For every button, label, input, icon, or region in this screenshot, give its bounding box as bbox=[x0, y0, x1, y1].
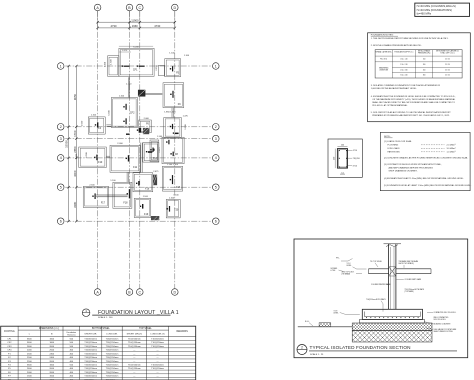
svg-text:BOTTOM STEEL: BOTTOM STEEL bbox=[92, 328, 110, 330]
grid bubble 4 at (215.8,157.9) bbox=[213, 155, 220, 162]
svg-text:200: 200 bbox=[423, 64, 426, 66]
beam-column crossing X bbox=[389, 267, 396, 277]
table column line bbox=[62, 326, 64, 380]
notes table column line bbox=[432, 50, 434, 78]
table column line bbox=[101, 326, 103, 380]
table group header line bbox=[18, 329, 169, 331]
footing CF1 main outline bbox=[119, 48, 154, 76]
svg-text:CF1: CF1 bbox=[133, 69, 138, 72]
leader dashes bbox=[421, 147, 445, 149]
grid line C (vertical) bbox=[139, 11, 141, 289]
svg-text:1.100 1.100: 1.100 1.100 bbox=[167, 164, 179, 166]
svg-text:2850: 2850 bbox=[73, 146, 77, 153]
grid line A (vertical) bbox=[97, 11, 99, 289]
column C1 (hatched block) bbox=[138, 90, 145, 96]
svg-text:F13: F13 bbox=[153, 157, 158, 160]
svg-text:2: 2 bbox=[215, 125, 217, 129]
section left dimension 500 bbox=[334, 149, 336, 169]
wall line bbox=[171, 108, 173, 118]
svg-text:5: 5 bbox=[215, 185, 217, 189]
column C1 section rectangle bbox=[337, 149, 347, 169]
svg-text:fy=460 MPa: fy=460 MPa bbox=[417, 12, 432, 16]
svg-text:F15: F15 bbox=[176, 186, 181, 189]
svg-text:250: 250 bbox=[423, 69, 426, 71]
column C-D4a (filled section) bbox=[168, 140, 169, 145]
svg-text:1.100: 1.100 bbox=[185, 124, 187, 130]
svg-text:5: 5 bbox=[60, 185, 62, 189]
foundation notes box bbox=[368, 33, 471, 122]
top overall dimension line 11900 bbox=[98, 21, 175, 23]
svg-text:F16: F16 bbox=[145, 188, 150, 191]
svg-text:T16@150mm: T16@150mm bbox=[84, 364, 97, 366]
table row line bbox=[1, 369, 196, 371]
svg-text:1.500: 1.500 bbox=[81, 120, 83, 126]
svg-text:T16@150mm: T16@150mm bbox=[106, 342, 119, 344]
svg-text:FILL SOIL: FILL SOIL bbox=[380, 59, 387, 61]
dimension tick bbox=[67, 65, 69, 67]
footing F15 outline bbox=[162, 166, 182, 191]
dimension extension line bbox=[174, 11, 176, 30]
svg-text:4730: 4730 bbox=[154, 24, 160, 28]
column C-D5 (filled section) bbox=[172, 175, 173, 184]
svg-text:T16@150mm: T16@150mm bbox=[84, 339, 97, 341]
wall line bbox=[172, 108, 174, 118]
table row line bbox=[1, 358, 196, 360]
svg-text:1. THE GEOTECHNICAL REPORT WAS: 1. THE GEOTECHNICAL REPORT WAS SECURED F… bbox=[371, 37, 449, 40]
column C-C3 (filled section) bbox=[139, 128, 141, 132]
svg-text:T16@150mm: T16@150mm bbox=[128, 364, 141, 366]
svg-text:T16@150mm: T16@150mm bbox=[151, 339, 164, 341]
svg-text:0.50 - 1.50: 0.50 - 1.50 bbox=[400, 59, 407, 61]
column top break line bbox=[384, 243, 402, 245]
column C-A2 (filled section) bbox=[97, 122, 98, 127]
footing F11 outline bbox=[110, 145, 140, 172]
svg-text:Thickness: Thickness bbox=[67, 334, 76, 336]
svg-text:500: 500 bbox=[333, 157, 335, 160]
wall line bbox=[127, 77, 129, 97]
grid bubble 4 at (60.7,157.9) bbox=[57, 155, 64, 162]
svg-text:3380: 3380 bbox=[73, 201, 77, 208]
svg-text:LONG DIR.: LONG DIR. bbox=[106, 333, 118, 335]
svg-text:AND MEP DRAWINGS BEFORE PROCEE: AND MEP DRAWINGS BEFORE PROCEEDING bbox=[389, 166, 434, 169]
svg-text:1.50 - 2.50: 1.50 - 2.50 bbox=[400, 64, 407, 66]
notes table row line bbox=[375, 61, 462, 63]
footing F5 outline bbox=[165, 59, 181, 77]
svg-text:1960: 1960 bbox=[132, 24, 138, 28]
svg-text:1: 1 bbox=[215, 64, 217, 68]
column mark at B3 bbox=[126, 134, 130, 135]
svg-text:1.100: 1.100 bbox=[184, 55, 190, 57]
column C-C4 (filled section) bbox=[148, 151, 152, 153]
svg-text:T16@150mm: T16@150mm bbox=[84, 368, 97, 370]
wall line bbox=[106, 157, 110, 159]
grid bubble C at (139.8,7.5) bbox=[137, 4, 144, 11]
table column line bbox=[40, 326, 42, 380]
grid bubble 1 at (60.7,66.0) bbox=[57, 63, 64, 70]
grid line 6 (horizontal) bbox=[65, 220, 212, 222]
svg-text:T16@150mm: T16@150mm bbox=[151, 364, 164, 366]
svg-text:1.100: 1.100 bbox=[173, 195, 179, 197]
grid bubble B at (129.5,292.0) bbox=[126, 289, 133, 296]
footing F12 pad outline bbox=[150, 140, 159, 161]
svg-text:T16@150mm: T16@150mm bbox=[128, 342, 141, 344]
svg-text:25 / 20: 25 / 20 bbox=[445, 64, 450, 66]
svg-text:1.100: 1.100 bbox=[169, 197, 175, 199]
plan title underline bbox=[92, 314, 170, 316]
dimension extension line bbox=[97, 11, 99, 30]
svg-text:SHOP DRAWINGS ON SHEET.: SHOP DRAWINGS ON SHEET. bbox=[389, 170, 418, 173]
svg-text:T16@150mm: T16@150mm bbox=[84, 376, 97, 378]
dimension extension line bbox=[139, 11, 141, 30]
svg-text:4730: 4730 bbox=[111, 24, 117, 28]
column C-D2 (filled section) bbox=[172, 91, 173, 98]
svg-text:T16@150mm: T16@150mm bbox=[84, 372, 97, 374]
svg-text:300: 300 bbox=[423, 75, 426, 77]
grid line 1 (horizontal) bbox=[65, 65, 212, 67]
table row line bbox=[1, 377, 196, 379]
note box (loads) bbox=[380, 132, 470, 190]
svg-text:CF2: CF2 bbox=[130, 111, 135, 114]
svg-text:3.50 - 4.50: 3.50 - 4.50 bbox=[400, 75, 407, 77]
table row line bbox=[1, 373, 196, 375]
top segment dimension line 4730/1960/4730 bbox=[98, 27, 175, 29]
svg-text:SOIL 95% M.D.D.: SOIL 95% M.D.D. bbox=[434, 319, 447, 321]
svg-text:1.500: 1.500 bbox=[111, 58, 113, 64]
column C-B2 (filled section) bbox=[126, 104, 127, 110]
svg-text:SCREED: SCREED bbox=[331, 268, 338, 270]
svg-text:25 / 20: 25 / 20 bbox=[445, 59, 450, 61]
svg-text:SHEET UNDER FOOTING: SHEET UNDER FOOTING bbox=[434, 331, 454, 333]
svg-text:OF THE MAXIMUM DRY DENSITY (±2: OF THE MAXIMUM DRY DENSITY (±2%). THICK … bbox=[372, 98, 456, 101]
svg-text:5.300: 5.300 bbox=[109, 110, 111, 116]
svg-text:FOUNDATION NOTES :: FOUNDATION NOTES : bbox=[371, 33, 395, 36]
column C-D3b (filled section) bbox=[175, 133, 179, 135]
dimension tick bbox=[67, 186, 69, 188]
rebar dots bbox=[339, 150, 340, 151]
svg-text:3. ISOLATED COMBINED FOUNDATIO: 3. ISOLATED COMBINED FOUNDATION TO BE PL… bbox=[371, 84, 441, 87]
grid bubble 3 at (60.7,138.6) bbox=[57, 135, 64, 142]
svg-text:95% M.D.D. AT OPTIMUM MATERIAL: 95% M.D.D. AT OPTIMUM MATERIAL. bbox=[372, 104, 408, 107]
svg-text:F10: F10 bbox=[98, 161, 103, 164]
footing F19 outline bbox=[134, 198, 151, 217]
grid bubble A at (97.6,292.0) bbox=[94, 289, 101, 296]
svg-text:T16@150mm: T16@150mm bbox=[84, 353, 97, 355]
svg-text:1,000 BELOW THE ADJACENT ASPHA: 1,000 BELOW THE ADJACENT ASPHALT LEVEL. bbox=[371, 87, 417, 90]
wall line bbox=[145, 92, 162, 94]
svg-text:LEVEL: LEVEL bbox=[334, 313, 339, 315]
hatched block SE of F19 bbox=[151, 216, 159, 220]
svg-text:2.150: 2.150 bbox=[156, 65, 158, 71]
column C-D1 (filled section) bbox=[172, 66, 173, 71]
svg-text:FOOTING: FOOTING bbox=[4, 331, 15, 333]
svg-text:N.G.L.: N.G.L. bbox=[305, 321, 310, 323]
left dimension chain (inner) bbox=[75, 66, 77, 221]
dimension tick bbox=[67, 220, 69, 222]
svg-text:9050: 9050 bbox=[73, 93, 77, 100]
svg-text:2.675: 2.675 bbox=[153, 171, 159, 173]
svg-text:1.100: 1.100 bbox=[143, 196, 149, 198]
wall line bbox=[106, 124, 111, 126]
svg-text:T16@150mm: T16@150mm bbox=[106, 357, 119, 359]
left dimension chain (outer) bbox=[68, 66, 70, 221]
typical isolated foundation section box bbox=[294, 239, 468, 358]
svg-text:T16@150mm: T16@150mm bbox=[151, 368, 164, 370]
svg-text:REMARKS: REMARKS bbox=[176, 330, 188, 333]
svg-text:1.100: 1.100 bbox=[76, 153, 78, 159]
grid bubble D at (174.8,7.5) bbox=[172, 4, 179, 11]
dimension tick bbox=[96, 21, 98, 23]
svg-text:4. EXCAVATION AT THE FOUNDATIO: 4. EXCAVATION AT THE FOUNDATION LEVEL SH… bbox=[371, 95, 456, 98]
svg-text:F18: F18 bbox=[123, 201, 128, 204]
svg-text:D: D bbox=[173, 6, 176, 10]
svg-text:& TILE: & TILE bbox=[331, 270, 336, 272]
svg-text:1.960 1.100: 1.960 1.100 bbox=[164, 111, 176, 113]
wall line bbox=[129, 77, 131, 97]
leader dashes bbox=[421, 151, 445, 153]
svg-text:T.O.C.: T.O.C. bbox=[347, 263, 352, 265]
section footing body bbox=[362, 309, 422, 319]
column section detail box bbox=[328, 139, 362, 177]
table column line bbox=[121, 326, 123, 380]
table row line bbox=[1, 339, 196, 341]
svg-text:1.100: 1.100 bbox=[119, 95, 125, 97]
dimension tick bbox=[174, 21, 176, 23]
svg-text:2.0 kN/m²: 2.0 kN/m² bbox=[447, 144, 456, 147]
svg-text:C: C bbox=[138, 290, 141, 294]
ground line left bbox=[298, 326, 352, 328]
svg-text:T16@150mm: T16@150mm bbox=[128, 346, 141, 348]
svg-text:LEVEL: LEVEL bbox=[347, 265, 352, 267]
svg-text:1.100: 1.100 bbox=[110, 180, 116, 182]
column C-B5 (filled section) bbox=[129, 189, 130, 198]
table row line bbox=[1, 343, 196, 345]
svg-text:T16@150mm: T16@150mm bbox=[106, 353, 119, 355]
svg-text:BLINDING CONCRETE: BLINDING CONCRETE bbox=[434, 323, 451, 325]
hatched pad at F6 bbox=[143, 128, 149, 134]
svg-text:F.F.L.: F.F.L. bbox=[336, 257, 340, 259]
dimension tick bbox=[67, 126, 69, 128]
svg-text:(1) LOADS ON FLOOR SLAB :: (1) LOADS ON FLOOR SLAB : bbox=[384, 140, 413, 143]
svg-text:T.B. TOP LEVEL: T.B. TOP LEVEL bbox=[370, 261, 382, 263]
grid line 5 (horizontal) bbox=[65, 186, 212, 188]
wall line bbox=[145, 94, 162, 96]
svg-text:PRESSURE (kPa): PRESSURE (kPa) bbox=[418, 53, 431, 55]
svg-text:4: 4 bbox=[60, 156, 62, 160]
svg-text:F19: F19 bbox=[144, 213, 149, 216]
notes table row line bbox=[375, 55, 462, 57]
svg-text:(3) CONTRACTOR SHOULD WORK WIT: (3) CONTRACTOR SHOULD WORK WITH ARCHITEC… bbox=[384, 163, 442, 166]
footing F8 outline bbox=[162, 137, 184, 164]
svg-text:f'c=40 MPa (FOUNDATIONS): f'c=40 MPa (FOUNDATIONS) bbox=[417, 8, 452, 12]
grid bubble B at (129.5,7.5) bbox=[126, 4, 133, 11]
dimension tick bbox=[139, 21, 141, 23]
svg-text:4T16: 4T16 bbox=[353, 165, 357, 167]
footing F13 outline bbox=[143, 143, 159, 163]
svg-text:1.500: 1.500 bbox=[157, 136, 163, 138]
svg-text:F11: F11 bbox=[133, 166, 138, 169]
svg-text:(4) EXCAVATION AT LEAST 1.50m: (4) EXCAVATION AT LEAST 1.50m (MIN.) BEL… bbox=[384, 177, 464, 180]
leader dashes bbox=[421, 144, 445, 146]
svg-text:3.0 kN/m²: 3.0 kN/m² bbox=[447, 147, 456, 150]
svg-text:25 / 20: 25 / 20 bbox=[445, 75, 450, 77]
svg-text:TYPICAL ISOLATED FOUNDATION SE: TYPICAL ISOLATED FOUNDATION SECTION bbox=[310, 345, 411, 350]
blinding concrete layer bbox=[360, 319, 425, 323]
grid bubble 5 at (215.8,187.2) bbox=[213, 184, 220, 191]
svg-text:(2) CONCRETE GRADES: AS PER PO: (2) CONCRETE GRADES: AS PER POURED REINF… bbox=[384, 157, 468, 160]
footing F6 outline bbox=[139, 120, 152, 133]
svg-text:3: 3 bbox=[215, 137, 217, 141]
grid bubble A at (97.6,7.5) bbox=[94, 4, 101, 11]
column C-D3 (filled section) bbox=[172, 124, 173, 129]
footing CF2 outline bbox=[111, 98, 137, 128]
dimension tick bbox=[67, 137, 69, 139]
grid line 4 (horizontal) bbox=[65, 157, 212, 159]
footing F20 outline bbox=[166, 199, 180, 218]
grid bubble 3 at (215.8,138.6) bbox=[213, 135, 220, 142]
grid bubble 1 at (215.8,66.0) bbox=[213, 63, 220, 70]
svg-text:25 / 20: 25 / 20 bbox=[445, 69, 450, 71]
svg-text:T8@150: T8@150 bbox=[353, 158, 360, 160]
column C-B3 (filled section) bbox=[126, 118, 127, 124]
svg-text:4: 4 bbox=[215, 156, 217, 160]
svg-text:3: 3 bbox=[60, 137, 62, 141]
footing F4 outline bbox=[88, 117, 105, 134]
svg-text:1.100: 1.100 bbox=[126, 84, 132, 86]
svg-text:F17: F17 bbox=[101, 202, 106, 205]
tie beam right bbox=[396, 268, 431, 270]
wall line bbox=[128, 172, 130, 182]
svg-text:TOP STEEL: TOP STEEL bbox=[139, 328, 152, 330]
svg-text:T16@150mm: T16@150mm bbox=[128, 368, 141, 370]
svg-text:1.500: 1.500 bbox=[86, 152, 88, 158]
leader 4T16 top bbox=[348, 150, 353, 152]
dimension tick bbox=[67, 157, 69, 159]
svg-text:SCALE 1 : 100: SCALE 1 : 100 bbox=[98, 316, 113, 319]
svg-text:T16@150mm: T16@150mm bbox=[151, 346, 164, 348]
svg-text:f'c=40 MPa (COLUMNS,WALLS): f'c=40 MPa (COLUMNS,WALLS) bbox=[417, 4, 456, 8]
svg-text:F20: F20 bbox=[174, 208, 179, 211]
left leader cluster bbox=[341, 259, 353, 262]
svg-text:T16@150mm: T16@150mm bbox=[106, 368, 119, 370]
svg-text:15550: 15550 bbox=[64, 140, 68, 148]
svg-text:T16@150mm: T16@150mm bbox=[106, 372, 119, 374]
footing F9 outline bbox=[163, 83, 184, 108]
svg-text:D: D bbox=[173, 290, 176, 294]
table subheader bottom line bbox=[1, 336, 196, 338]
svg-text:4T16 TOP & BOT.: 4T16 TOP & BOT. bbox=[342, 272, 355, 274]
footing bottom rebar with dots bbox=[365, 316, 421, 318]
footing F18 outline bbox=[113, 182, 132, 208]
table column line bbox=[168, 326, 170, 380]
svg-text:LIMESTONE: LIMESTONE bbox=[379, 70, 388, 72]
svg-text:LONG DIR.(T): LONG DIR.(T) bbox=[151, 333, 165, 335]
svg-text:T16@150mm: T16@150mm bbox=[128, 339, 141, 341]
grid bubble D at (174.8,292.0) bbox=[172, 289, 179, 296]
svg-text:SCALE 1 : 25: SCALE 1 : 25 bbox=[310, 353, 324, 356]
dimension tick bbox=[128, 21, 130, 23]
leader 4T16 bottom bbox=[348, 165, 353, 167]
notes table column line bbox=[391, 50, 393, 78]
grid bubble 6 at (60.7,221.2) bbox=[57, 218, 64, 225]
svg-text:2.675: 2.675 bbox=[159, 147, 161, 153]
wall line bbox=[106, 155, 110, 157]
svg-text:SHORT DIR.: SHORT DIR. bbox=[84, 333, 97, 335]
tile step detail bbox=[319, 323, 331, 327]
svg-text:T.O.F.: T.O.F. bbox=[334, 311, 339, 313]
grid bubble C at (139.8,292.0) bbox=[137, 289, 144, 296]
column C-C45 (filled section) bbox=[138, 181, 139, 186]
wall line bbox=[126, 172, 128, 182]
grid bubble 5 at (60.7,187.2) bbox=[57, 184, 64, 191]
svg-text:1.100: 1.100 bbox=[91, 115, 97, 117]
svg-text:1.100: 1.100 bbox=[169, 53, 175, 55]
tie beam left bbox=[369, 268, 389, 270]
table row line bbox=[1, 347, 196, 349]
svg-text:2.50 - 3.50: 2.50 - 3.50 bbox=[400, 69, 407, 71]
svg-text:(5) FOUNDATION LEVEL AT LEAST: (5) FOUNDATION LEVEL AT LEAST 1.50m (MIN… bbox=[384, 184, 472, 187]
column C-B4 (filled section) bbox=[128, 155, 129, 161]
notes table row line bbox=[392, 71, 462, 73]
strap beam from F17 column bbox=[96, 194, 127, 196]
section top dimension 200 bbox=[337, 145, 347, 147]
column rebar lines bbox=[390, 247, 392, 309]
wall line bbox=[106, 125, 111, 127]
table column line bbox=[17, 326, 19, 380]
svg-text:T16@150mm: T16@150mm bbox=[106, 339, 119, 341]
svg-text:T16@150mm: T16@150mm bbox=[106, 376, 119, 378]
svg-text:6: 6 bbox=[215, 219, 217, 223]
svg-text:2.000: 2.000 bbox=[144, 118, 150, 120]
svg-text:2: 2 bbox=[60, 125, 62, 129]
svg-text:4000: 4000 bbox=[73, 170, 77, 177]
compacted fill hatch layer bbox=[352, 323, 432, 331]
svg-text:2. MOST ALLOWABLE PRESSURE APP: 2. MOST ALLOWABLE PRESSURE APPLIED BELOW… bbox=[371, 44, 422, 47]
svg-text:T16@150mm: T16@150mm bbox=[84, 361, 97, 363]
footing F7 outline bbox=[164, 118, 182, 138]
svg-text:1: 1 bbox=[60, 64, 62, 68]
hatched column pad left of F15 bbox=[153, 175, 157, 186]
svg-text:T16@150mm: T16@150mm bbox=[84, 342, 97, 344]
grid bubble 2 at (60.7,126.8) bbox=[57, 124, 64, 131]
column C-C5 (filled section) bbox=[142, 204, 143, 209]
column C-A4 (filled section) bbox=[96, 155, 97, 161]
svg-text:T16@150mm: T16@150mm bbox=[84, 346, 97, 348]
footing schedule table frame bbox=[1, 326, 196, 380]
svg-text:FLOORING: FLOORING bbox=[388, 145, 399, 147]
leader ties bbox=[348, 157, 353, 159]
svg-text:T16@150mm: T16@150mm bbox=[84, 350, 97, 352]
notes pressure table frame bbox=[375, 50, 462, 78]
footing F10 outline bbox=[79, 147, 107, 168]
svg-text:SHORT DIR.(T): SHORT DIR.(T) bbox=[127, 333, 143, 335]
grid line B (vertical) bbox=[129, 11, 131, 289]
table row line bbox=[1, 354, 196, 356]
grid bubble 6 at (215.8,221.2) bbox=[213, 218, 220, 225]
svg-text:2.500: 2.500 bbox=[89, 185, 95, 187]
section title underline bbox=[309, 350, 457, 352]
wall lines between F11 and F13 bbox=[140, 143, 142, 173]
table column line bbox=[146, 326, 148, 380]
svg-text:5.200: 5.200 bbox=[133, 46, 139, 48]
svg-text:SHALL BE PLACED DIRECTLY BELOW: SHALL BE PLACED DIRECTLY BELOW FOUNDATIO… bbox=[372, 101, 455, 104]
svg-text:2.000: 2.000 bbox=[117, 143, 123, 145]
section column shaft bbox=[388, 244, 390, 309]
svg-text:PARTITIONS: PARTITIONS bbox=[388, 151, 401, 154]
footing F16 outline bbox=[133, 173, 153, 192]
notes table row line bbox=[392, 66, 462, 68]
svg-text:PREPARED BY PIONEERS LABORATOR: PREPARED BY PIONEERS LABORATORY REPT. NO… bbox=[372, 114, 450, 117]
footing CF1 left extension outline bbox=[108, 56, 119, 77]
